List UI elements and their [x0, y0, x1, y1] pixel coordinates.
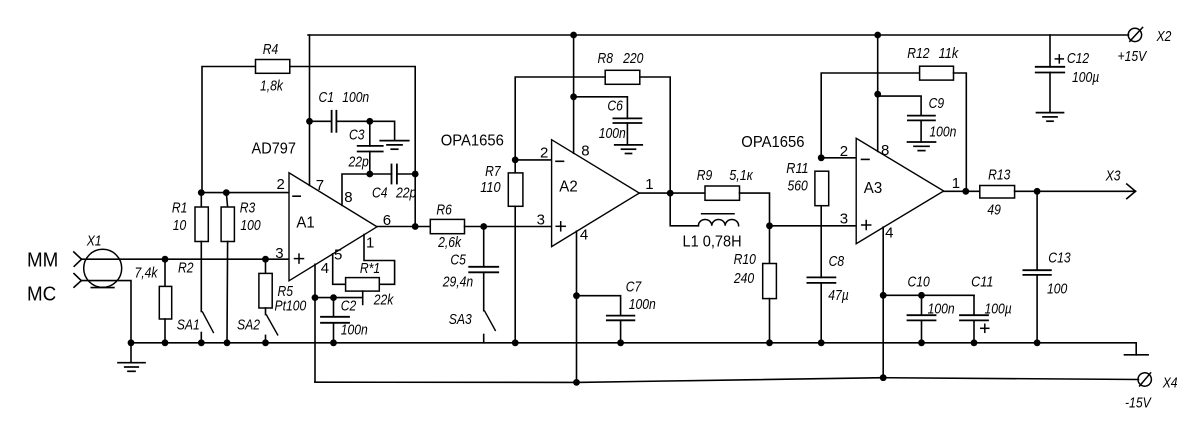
svg-text:Pt100: Pt100	[275, 298, 307, 315]
resistor R13 label	[987, 167, 1011, 219]
wire C10 bottom	[921, 320, 923, 342]
node C9 left	[874, 91, 881, 98]
svg-text:3: 3	[275, 245, 283, 262]
resistor R1	[195, 207, 208, 242]
svg-text:C10: C10	[908, 273, 931, 290]
svg-text:560: 560	[788, 177, 809, 194]
wire A1 pin4	[314, 264, 316, 382]
node C10 bottom	[918, 339, 925, 346]
wire C12 top	[1049, 35, 1051, 67]
capacitor C1	[332, 111, 337, 132]
svg-text:R2: R2	[178, 259, 194, 276]
wire A1 pin5	[333, 254, 346, 284]
pin 7 label A1	[316, 177, 324, 194]
svg-text:X3: X3	[1105, 168, 1121, 185]
wire C6 bottom	[626, 123, 628, 145]
svg-text:29,4n: 29,4n	[442, 273, 473, 290]
svg-text:100n: 100n	[929, 123, 956, 140]
node C3 bottom	[366, 171, 373, 178]
pin 2 label A3	[840, 143, 848, 160]
svg-text:1: 1	[952, 175, 960, 192]
ground symbol C6	[615, 145, 643, 154]
wire C6 top	[574, 97, 628, 119]
capacitor C3 label	[349, 127, 365, 144]
op-amp A3 minus	[862, 158, 870, 160]
svg-text:11k: 11k	[939, 45, 960, 62]
svg-text:2,6k: 2,6k	[437, 234, 462, 251]
capacitor C3	[358, 146, 383, 152]
svg-text:C7: C7	[626, 279, 642, 296]
svg-text:X2: X2	[1156, 28, 1172, 45]
svg-text:8: 8	[881, 142, 889, 159]
op-amp A3 label OPA1656	[741, 134, 804, 151]
node pin4 wiper	[312, 294, 319, 301]
wire C12 bottom	[1049, 73, 1051, 113]
svg-text:C3: C3	[349, 127, 365, 144]
trimmer R*1	[346, 278, 380, 292]
svg-text:220: 220	[622, 50, 644, 67]
svg-text:2: 2	[840, 143, 848, 160]
svg-text:C12: C12	[1067, 50, 1090, 67]
svg-text:3: 3	[537, 212, 545, 229]
svg-text:C1: C1	[319, 89, 335, 106]
switch SA2 arm	[267, 315, 278, 335]
wire R2 bottom	[164, 319, 166, 343]
capacitor C3 value	[348, 154, 369, 171]
svg-text:C11: C11	[971, 273, 993, 290]
node C13 bottom	[1034, 339, 1041, 346]
svg-text:2: 2	[540, 145, 548, 162]
node A3 pin8 rail	[874, 32, 881, 39]
op-amp A1 triangle	[289, 173, 377, 281]
pin 1 label A2	[645, 176, 653, 193]
resistor R10	[763, 264, 777, 299]
wire C2 bottom	[333, 323, 335, 343]
switch SA3 stub	[483, 335, 485, 343]
svg-text:1,8k: 1,8k	[260, 78, 284, 95]
svg-text:R7: R7	[485, 163, 501, 180]
op-amp A1 plus	[295, 254, 304, 263]
resistor R7 label	[480, 163, 501, 196]
node A2 minus	[512, 157, 519, 164]
resistor R3	[221, 207, 234, 242]
capacitor C9 label	[929, 95, 957, 140]
svg-text:240: 240	[733, 270, 755, 287]
X1 shield chord	[91, 287, 114, 289]
resistor R5	[259, 273, 272, 308]
svg-text:X1: X1	[86, 233, 102, 250]
svg-text:OPA1656: OPA1656	[441, 133, 504, 150]
capacitor C9	[908, 116, 935, 121]
resistor R4	[256, 60, 290, 74]
wire C1 left	[310, 120, 332, 122]
resistor R3 label	[240, 199, 262, 234]
svg-text:SA2: SA2	[237, 316, 261, 333]
pin 6 label A1	[383, 212, 391, 229]
wire R4 left	[202, 67, 256, 193]
resistor R8 label	[598, 50, 644, 67]
resistor R5 label	[275, 283, 307, 315]
node C10 top	[918, 292, 925, 299]
svg-text:100: 100	[240, 217, 261, 234]
wire inverting input A1	[201, 192, 288, 194]
node R3 bottom	[224, 339, 231, 346]
svg-text:7,4k: 7,4k	[135, 265, 159, 282]
svg-text:A1: A1	[296, 215, 314, 232]
svg-text:C13: C13	[1048, 249, 1071, 266]
wire MC to ground	[81, 281, 131, 343]
wire R3 bottom	[226, 242, 229, 343]
op-amp A2 plus	[556, 222, 565, 231]
svg-text:C8: C8	[829, 253, 845, 270]
wire C11 top	[973, 295, 975, 315]
wire C7 bottom	[620, 320, 622, 343]
node C7 left	[573, 292, 580, 299]
connector X4	[1138, 373, 1151, 386]
pin 1 label A3	[952, 175, 960, 192]
wire R1 to SA1	[200, 242, 202, 312]
svg-text:47µ: 47µ	[828, 287, 849, 304]
svg-text:100n: 100n	[599, 125, 626, 142]
wire A3 pin4	[882, 227, 884, 378]
wire R11 to C8	[820, 206, 822, 278]
node C1 left	[306, 118, 313, 125]
resistor R4 label	[260, 41, 284, 95]
resistor R1 label	[172, 199, 188, 234]
wire C7 top	[577, 296, 621, 316]
capacitor C13	[1023, 270, 1051, 275]
resistor R11	[815, 171, 829, 206]
resistor R8	[605, 70, 640, 84]
capacitor C10 label	[908, 273, 955, 317]
wire A1 output	[377, 226, 431, 228]
wire A1 pin8	[342, 174, 392, 205]
wire C1 right	[336, 120, 369, 122]
svg-text:C6: C6	[607, 98, 623, 115]
trimmer R*1 label	[360, 260, 395, 309]
wire R5 top	[265, 259, 267, 273]
node R7 bottom	[512, 339, 519, 346]
label X3	[1105, 168, 1121, 185]
wire R10 top	[769, 226, 771, 264]
inductor L1	[698, 214, 738, 226]
wire C1 to ground	[370, 121, 395, 140]
wire bypass node	[883, 294, 974, 296]
label X4	[1162, 375, 1178, 392]
resistor R12	[920, 66, 954, 80]
wire C5 top	[483, 227, 485, 267]
pin 8 label A1	[344, 189, 352, 206]
node C7 bottom	[617, 339, 624, 346]
pin 3 label A3	[840, 210, 848, 227]
resistor R6 label	[436, 201, 462, 251]
op-amp A1 name	[296, 215, 314, 232]
op-amp A3 triangle	[856, 138, 944, 243]
svg-text:10: 10	[173, 217, 187, 234]
wire A3 output	[944, 190, 980, 192]
wire R12 right	[954, 73, 967, 191]
ground symbol C12	[1037, 113, 1064, 122]
resistor R2	[159, 286, 171, 319]
resistor R13	[980, 186, 1015, 199]
wire R5 to SA2	[265, 308, 267, 315]
svg-text:22k: 22k	[373, 292, 395, 309]
connector X1 circle	[84, 249, 122, 287]
svg-text:1: 1	[366, 235, 374, 252]
node C13 top	[1034, 188, 1041, 195]
svg-text:R4: R4	[263, 41, 279, 58]
pin 8 label A2	[581, 142, 589, 159]
capacitor C4 label	[372, 185, 416, 202]
pin 4 label A1	[321, 260, 329, 277]
svg-text:C9: C9	[929, 95, 945, 112]
wire R3 top	[226, 193, 227, 207]
capacitor C5	[469, 267, 498, 273]
wire A3 pin2	[821, 157, 856, 159]
wire A2 pin2	[515, 159, 551, 161]
svg-text:49: 49	[987, 201, 1001, 218]
wire A2 output	[639, 192, 705, 194]
node SA1 bottom	[198, 339, 205, 346]
capacitor C11 label	[971, 273, 1012, 317]
svg-text:100n: 100n	[629, 296, 656, 313]
node L1 right	[766, 222, 773, 229]
capacitor C4	[392, 165, 397, 184]
wire C13 bottom	[1036, 275, 1038, 343]
op-amp A2 label OPA1656	[441, 133, 504, 150]
ground symbol input	[118, 343, 145, 372]
pin 2 label A2	[540, 145, 548, 162]
svg-text:-15V: -15V	[1125, 395, 1152, 412]
label MC	[27, 284, 56, 306]
svg-text:X4: X4	[1162, 375, 1178, 392]
op-amp A3 plus	[862, 221, 871, 230]
svg-text:C4: C4	[372, 185, 388, 202]
svg-text:8: 8	[581, 142, 589, 159]
label MM	[27, 250, 58, 272]
wire A1 pin1	[364, 235, 395, 285]
capacitor C5 label	[442, 252, 473, 291]
node R3 top	[223, 189, 230, 196]
svg-text:8: 8	[344, 189, 352, 206]
wire R12 left	[821, 73, 919, 158]
node C11 bottom	[971, 339, 978, 346]
switch SA1 label	[177, 316, 200, 333]
svg-text:3: 3	[840, 210, 848, 227]
node C4 right	[412, 171, 419, 178]
op-amp A2 minus	[556, 160, 564, 162]
node R2 bottom	[162, 339, 169, 346]
pin 4 label A2	[580, 227, 588, 244]
op-amp A1 label AD797	[252, 141, 297, 158]
capacitor C8	[807, 277, 835, 283]
-15V rail	[315, 378, 1139, 383]
svg-text:5,1к: 5,1к	[729, 167, 753, 184]
label -15V	[1125, 395, 1152, 412]
svg-text:C2: C2	[341, 298, 357, 315]
switch SA1 arm	[203, 312, 214, 332]
wire C4 right	[397, 173, 415, 175]
svg-text:R8: R8	[598, 50, 614, 67]
svg-text:22p: 22p	[395, 185, 416, 202]
capacitor C6 label	[599, 98, 626, 143]
node A2 pin4 -15V	[573, 379, 580, 386]
svg-text:A3: A3	[864, 180, 882, 197]
capacitor C12	[1036, 67, 1065, 73]
wire A3 pin8 supply	[877, 35, 879, 151]
wire to A3 pin3	[770, 225, 857, 227]
svg-text:SA3: SA3	[449, 311, 473, 328]
node A3 pin4 bypass	[880, 292, 887, 299]
svg-text:AD797: AD797	[252, 141, 297, 158]
wire R8 right	[640, 77, 670, 193]
+15V rail	[308, 34, 1129, 36]
svg-text:100n: 100n	[342, 89, 369, 106]
capacitor C10	[908, 315, 936, 320]
pin 2 label A1	[277, 176, 285, 193]
capacitor C7 label	[626, 279, 656, 314]
node R2 top	[162, 256, 169, 263]
wire wiper node	[315, 297, 363, 299]
capacitor C8 label	[828, 253, 849, 304]
wire C9 top	[878, 96, 921, 116]
wire R6 right	[465, 226, 552, 228]
switch SA2 stub	[265, 335, 267, 342]
svg-text:L1 0,78H: L1 0,78H	[683, 233, 742, 250]
resistor R9	[705, 186, 740, 200]
ground symbol C1	[380, 141, 409, 150]
wire MM input	[81, 258, 289, 260]
wire R8 left	[515, 77, 605, 160]
label +15V	[1118, 48, 1148, 65]
capacitor C7	[607, 316, 635, 321]
inductor L1 label	[683, 233, 742, 250]
capacitor C13 label	[1047, 249, 1071, 297]
capacitor C12 polarity	[1055, 55, 1063, 63]
switch SA2 label	[237, 316, 261, 333]
resistor R12 label	[907, 45, 959, 62]
svg-text:4: 4	[321, 260, 329, 277]
capacitor C1 label	[319, 89, 370, 106]
pin 8 label A3	[881, 142, 889, 159]
switch SA3 label	[449, 311, 473, 328]
resistor R11 label	[786, 160, 808, 194]
svg-text:2: 2	[277, 176, 285, 193]
wire L1 left	[670, 193, 698, 226]
wire R2 top	[164, 259, 166, 286]
node C6 left	[570, 93, 577, 100]
svg-text:100µ: 100µ	[1072, 69, 1099, 86]
node C8 bottom	[818, 339, 825, 346]
node A2 output	[667, 190, 674, 197]
svg-text:4: 4	[580, 227, 588, 244]
node R1 top	[198, 189, 205, 196]
op-amp A2 triangle	[552, 140, 640, 247]
node A3 output	[962, 188, 969, 195]
svg-text:R10: R10	[734, 251, 757, 268]
pin 4 label A3	[885, 224, 893, 241]
svg-text:1: 1	[645, 176, 653, 193]
svg-text:5: 5	[334, 247, 342, 264]
wire C9 bottom	[920, 120, 922, 142]
svg-text:MC: MC	[27, 284, 56, 306]
node R4 output	[412, 223, 419, 230]
label X2	[1156, 28, 1172, 45]
wire C2 top	[333, 298, 335, 317]
capacitor C6	[613, 118, 641, 123]
node R5 top	[262, 256, 269, 263]
switch SA3 arm	[485, 311, 496, 330]
ground symbol C9	[908, 142, 936, 151]
wire R7 bottom	[514, 206, 516, 342]
wire R13 right	[1015, 190, 1136, 192]
wire A2 pin8 supply	[573, 35, 575, 153]
svg-text:4: 4	[885, 224, 893, 241]
node SA2 bottom	[262, 339, 269, 346]
pin 3 label A1	[275, 245, 283, 262]
capacitor C12 label	[1067, 50, 1099, 86]
svg-text:R13: R13	[988, 167, 1011, 184]
node C2 bottom	[330, 339, 337, 346]
node A3 pin4 -15V	[880, 374, 887, 381]
wire C8 bottom	[820, 283, 822, 343]
pin 5 label A1	[334, 247, 342, 264]
node X1 ground	[128, 339, 135, 346]
svg-text:OPA1656: OPA1656	[741, 134, 804, 151]
wire R9 right	[740, 193, 770, 226]
resistor R7	[508, 173, 523, 206]
wire A2 pin4	[576, 231, 578, 382]
svg-text:100: 100	[1047, 281, 1068, 298]
svg-text:R12: R12	[907, 45, 930, 62]
capacitor C2 label	[341, 298, 368, 339]
wire R10 bottom	[769, 299, 771, 343]
wire C3 bottom	[369, 152, 371, 175]
ground rail	[131, 343, 1136, 355]
svg-text:R*1: R*1	[360, 260, 380, 277]
node R10 bottom	[766, 339, 773, 346]
svg-text:+15V: +15V	[1118, 48, 1148, 65]
svg-text:SA1: SA1	[177, 316, 200, 333]
capacitor C11	[960, 315, 988, 320]
pin chevron MC	[74, 274, 81, 288]
svg-text:22p: 22p	[348, 154, 369, 171]
svg-text:MM: MM	[27, 250, 58, 272]
resistor R9 label	[697, 167, 754, 184]
svg-text:R9: R9	[697, 167, 713, 184]
switch SA1 stub	[200, 333, 202, 343]
op-amp A3 name	[864, 180, 882, 197]
svg-text:A2: A2	[559, 179, 577, 196]
svg-text:7: 7	[316, 177, 324, 194]
wire R7 top	[514, 160, 516, 173]
wire C10 top	[921, 295, 923, 315]
svg-text:R3: R3	[240, 199, 256, 216]
node C5 top	[480, 223, 487, 230]
connector X1 label	[86, 233, 102, 250]
svg-text:110: 110	[480, 179, 501, 196]
svg-text:R1: R1	[172, 199, 188, 216]
connector X2	[1128, 27, 1142, 41]
trimmer R*1 wiper	[362, 291, 364, 304]
pin chevron MM	[74, 252, 82, 266]
node A2 pin8 rail	[570, 32, 577, 39]
capacitor C11 polarity	[981, 324, 989, 332]
wire C5 to SA3	[483, 272, 485, 310]
node C2 top	[330, 294, 337, 301]
resistor R2 label	[135, 259, 195, 281]
resistor R10 label	[733, 251, 756, 287]
